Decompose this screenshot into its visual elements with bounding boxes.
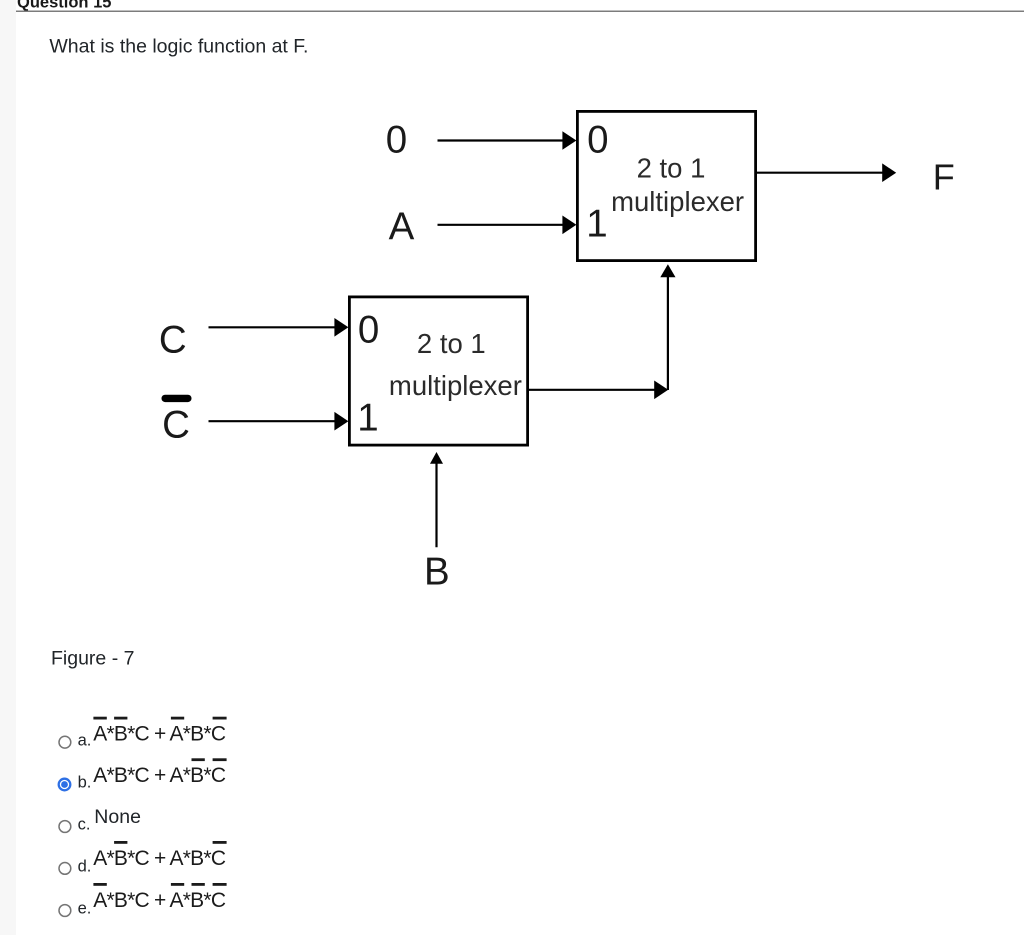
svg-text:multiplexer: multiplexer: [611, 186, 744, 217]
svg-text:0: 0: [386, 119, 407, 162]
svg-text:What is the logic function at: What is the logic function at F.: [49, 36, 308, 58]
option a formula: [93, 717, 226, 746]
multiplexer U1 (upper 2 to 1 multiplexer): [577, 111, 755, 260]
svg-text:c.: c.: [78, 816, 91, 834]
svg-text:A*B*C + A*B*C: A*B*C + A*B*C: [93, 723, 226, 746]
svg-text:C: C: [162, 404, 190, 447]
svg-text:None: None: [94, 806, 141, 828]
svg-text:C: C: [159, 319, 187, 362]
radio option c (unchecked): [59, 821, 71, 833]
svg-text:0: 0: [358, 308, 379, 351]
svg-text:e.: e.: [78, 900, 92, 918]
svg-text:d.: d.: [78, 858, 92, 876]
svg-text:a.: a.: [78, 731, 92, 749]
svg-text:1: 1: [586, 202, 607, 245]
svg-text:A: A: [389, 206, 415, 249]
svg-text:A*B*C + A*B*C: A*B*C + A*B*C: [93, 889, 226, 912]
wire C-bar to U2 pin1: [209, 412, 349, 431]
svg-text:1: 1: [357, 396, 378, 439]
svg-text:Question 15: Question 15: [17, 0, 111, 12]
node label C-bar: [162, 395, 192, 447]
svg-text:2 to 1: 2 to 1: [637, 153, 706, 184]
svg-text:B: B: [424, 551, 450, 594]
wire 0 to U1 pin0: [438, 131, 577, 150]
radio option b (checked): [59, 779, 71, 791]
svg-text:A*B*C + A*B*C: A*B*C + A*B*C: [93, 764, 226, 787]
svg-text:Figure - 7: Figure - 7: [51, 648, 134, 670]
svg-text:multiplexer: multiplexer: [389, 370, 522, 401]
radio option a (unchecked): [59, 736, 71, 748]
wire A to U1 pin1: [438, 216, 577, 235]
wire C to U2 pin0: [209, 318, 349, 337]
radio option d (unchecked): [59, 863, 71, 875]
svg-text:A*B*C + A*B*C: A*B*C + A*B*C: [93, 847, 226, 870]
wire corner node up to U1 select input: [660, 264, 675, 390]
option d formula: [93, 841, 226, 870]
svg-text:2 to 1: 2 to 1: [417, 328, 486, 359]
wire U2 output to corner node: [528, 381, 668, 400]
wire U1 output to F: [756, 163, 896, 182]
svg-text:0: 0: [587, 118, 608, 161]
option b formula: [93, 758, 226, 787]
option e formula: [93, 883, 226, 912]
multiplexer U2 (lower 2 to 1 multiplexer): [349, 297, 527, 445]
header divider line: [16, 11, 1024, 12]
svg-text:F: F: [933, 157, 955, 198]
svg-text:b.: b.: [78, 774, 92, 792]
wire B to U2 select input: [430, 452, 443, 547]
radio option e (unchecked): [59, 905, 71, 917]
left gutter: [0, 0, 16, 935]
